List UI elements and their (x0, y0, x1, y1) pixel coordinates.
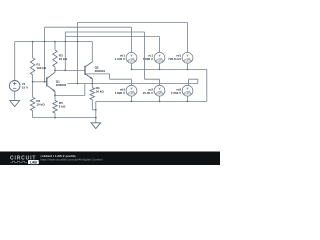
wire Q1 emitter node horizontal (55, 95, 85, 97)
wire V1 top (14, 42, 16, 81)
wire vc2 drop between meters (144, 32, 146, 79)
wire vc1 meter drop (159, 37, 161, 53)
voltmeter ve1 (182, 52, 193, 63)
voltmeter ve2 (182, 85, 193, 96)
wire Q2 emitter to R4 (91, 82, 93, 88)
svg-text:7.890 V: 7.890 V (143, 57, 153, 61)
wire vb1 meter drop (131, 27, 133, 52)
footer bar (0, 152, 220, 166)
voltmeter vc1 (154, 52, 165, 63)
voltmeter vb2 (126, 85, 137, 96)
svg-text:V: V (186, 54, 188, 58)
wire R3 bottom / Q1 collector vertical (54, 67, 56, 73)
svg-text:https://www.circuitlab.com/c/p: https://www.circuitlab.com/c/pe4bn6g/lab… (41, 158, 104, 162)
wire right side down (206, 69, 208, 101)
svg-text:15.00 V: 15.00 V (143, 91, 153, 95)
wire bus row3 vc2 feed (65, 31, 144, 33)
svg-text:20 kΩ: 20 kΩ (59, 57, 68, 61)
resistor R1 (30, 58, 34, 75)
wire bus2 meters ground (96, 100, 207, 102)
wire bus1 meters ground (132, 68, 207, 70)
wire R4 bottom jog (92, 100, 96, 110)
svg-text:V: V (186, 87, 188, 91)
svg-text:V: V (130, 54, 132, 58)
wire ve1 meter drop (187, 23, 189, 53)
wire vc1 riser (64, 32, 66, 70)
wire emitter node line ve (68, 83, 198, 85)
wire vb1 riser (44, 27, 46, 82)
svg-text:7.890 V: 7.890 V (115, 91, 125, 95)
svg-text:10 kΩ: 10 kΩ (36, 102, 45, 106)
wire bus row1 ve1 (78, 22, 188, 24)
resistor R4 (90, 88, 94, 100)
resistor R5 (53, 101, 57, 114)
wire bus row4 vc1 (65, 36, 159, 38)
svg-text:V: V (130, 87, 132, 91)
transistor Q2 (84, 66, 86, 75)
svg-text:2N3904: 2N3904 (95, 69, 106, 73)
resistor R2 (30, 97, 34, 110)
wire bottom ground rail (33, 117, 96, 119)
svg-text:1.342 V: 1.342 V (115, 57, 125, 61)
wire ve2 bracket (189, 79, 198, 85)
ground (V1) (10, 101, 20, 107)
wire vb2 meter top (131, 79, 133, 85)
wire V1 bottom to ground (14, 91, 16, 101)
svg-text:700.8 mV: 700.8 mV (168, 57, 181, 61)
wire R3 top lead (54, 42, 56, 50)
resistor R3 (53, 50, 57, 67)
wire top rail +15V (15, 41, 93, 43)
wire ve1 riser (77, 23, 79, 84)
wire R1 top lead (32, 42, 34, 58)
svg-text:100 kΩ: 100 kΩ (36, 66, 47, 70)
voltmeter vc2 (154, 85, 165, 96)
svg-text:15 V: 15 V (22, 86, 28, 90)
wire emitter jog vertical (84, 84, 86, 96)
voltmeter vb1 (126, 52, 137, 63)
svg-text:2 kΩ: 2 kΩ (59, 104, 66, 108)
svg-text:16 kΩ: 16 kΩ (96, 89, 105, 93)
wire vb2 tap from Q2 base bar (85, 74, 132, 79)
wire R5 top lead (54, 96, 56, 101)
svg-text:7.250 V: 7.250 V (171, 91, 181, 95)
svg-text:V: V (158, 87, 160, 91)
wire bus row2 vb1 (45, 26, 132, 28)
wire ground column (95, 101, 97, 122)
wire R1 bottom to R2 top (node vb1) (32, 75, 34, 98)
wire R5 bottom lead (54, 113, 56, 118)
wire Q2 base from Q1 collector node (55, 69, 85, 71)
svg-text:2N3904: 2N3904 (56, 83, 67, 87)
ground (meters) (91, 123, 101, 129)
wire Q1 base (33, 81, 47, 83)
wire top meter bottoms to bus1 (132, 63, 188, 69)
wire bottom meter bottoms to bus2 (132, 96, 188, 101)
junction dots (32, 41, 189, 119)
wire Q2 collector vertical (91, 42, 93, 62)
wire R2 bottom lead (32, 111, 34, 118)
svg-text:LAB: LAB (30, 160, 38, 164)
transistor Q1 (46, 77, 48, 86)
wire vc2 jog to meter top (145, 79, 160, 85)
svg-text:V: V (158, 54, 160, 58)
voltage source V1 (9, 81, 20, 92)
